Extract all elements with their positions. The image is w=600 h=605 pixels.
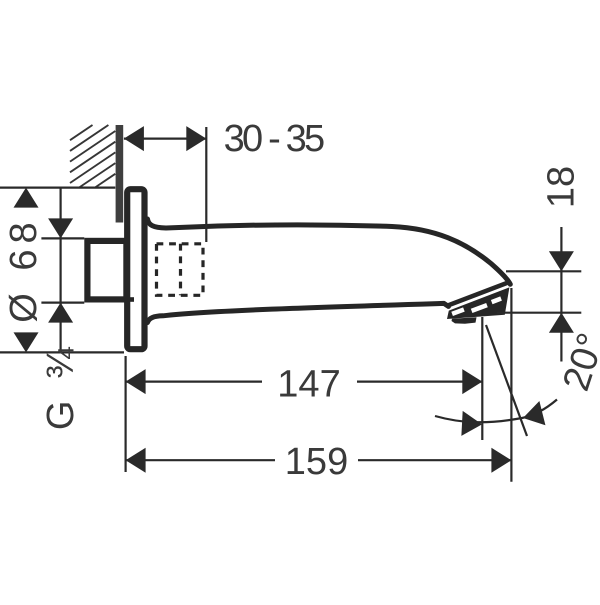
G3/4 nipple bbox=[87, 241, 126, 300]
svg-text:147: 147 bbox=[277, 364, 340, 406]
spout top outline bbox=[148, 219, 511, 284]
svg-text:159: 159 bbox=[285, 441, 348, 483]
aerator foot bbox=[452, 317, 477, 324]
dimension 159 right extension line bbox=[510, 288, 512, 482]
dimension 147 right extension line bbox=[481, 317, 483, 440]
angle 20 deg reference slant line bbox=[486, 325, 527, 436]
angle 20 deg arc bbox=[435, 400, 557, 423]
dimension G3/4 bottom tick line bbox=[41, 302, 84, 304]
aerator slot right bbox=[491, 296, 502, 304]
spout body fill bbox=[148, 219, 511, 322]
dimension O68 bottom extension line bbox=[0, 351, 124, 353]
wall hatching bbox=[70, 125, 115, 188]
dimension 18 bottom extension line bbox=[497, 312, 581, 314]
aerator collar bbox=[446, 281, 509, 309]
aerator slot middle bbox=[471, 303, 488, 313]
dimension O68 top extension line bbox=[0, 187, 115, 189]
dimension 18 bottom arrowhead bbox=[549, 313, 574, 333]
dimension 18 line bbox=[560, 227, 562, 313]
dimension 147 arrow line bbox=[126, 381, 262, 383]
dimension G3/4 top arrowhead bbox=[48, 218, 73, 238]
wall surface line bbox=[116, 125, 124, 223]
dimension 30-35 extension line bbox=[205, 127, 207, 242]
angle 20 deg left arrowhead bbox=[461, 411, 482, 437]
dimension 147 left arrowhead bbox=[126, 369, 146, 394]
dimension 30-35 arrow line bbox=[124, 138, 206, 140]
dimension G3/4 line bbox=[59, 188, 61, 352]
spout bottom outline bbox=[148, 303, 449, 322]
dimension 30-35 right arrowhead bbox=[186, 126, 206, 151]
svg-text:18: 18 bbox=[541, 166, 583, 208]
angle 20 deg right arrowhead bbox=[520, 401, 545, 430]
dimension O68 bottom arrowhead bbox=[14, 332, 39, 352]
aerator slot left bbox=[451, 307, 464, 316]
nipple hidden edge nub bbox=[129, 297, 134, 302]
svg-text:30 - 35: 30 - 35 bbox=[224, 118, 324, 160]
dimension 18 top arrowhead bbox=[549, 251, 574, 271]
dimension 159 right arrowhead bbox=[491, 448, 511, 473]
svg-text:G ¾: G ¾ bbox=[40, 342, 82, 430]
dimension 159 left arrowhead bbox=[126, 448, 146, 473]
dimension O68 top arrowhead bbox=[14, 188, 39, 208]
dimension 147 right arrowhead bbox=[462, 369, 482, 394]
flange (escutcheon) bbox=[127, 189, 144, 349]
dimension 147 left extension line bbox=[124, 356, 126, 472]
svg-text:Ø 68: Ø 68 bbox=[3, 216, 45, 322]
hidden connector dashed outline bbox=[157, 244, 204, 295]
aerator body block bbox=[447, 287, 509, 319]
dimension 159 arrow line bbox=[126, 459, 275, 461]
dimension 18 top extension line bbox=[506, 270, 581, 272]
dimension G3/4 bottom arrowhead bbox=[48, 303, 73, 323]
dimension G3/4 top tick line bbox=[41, 237, 84, 239]
dimension 30-35 left arrowhead bbox=[124, 126, 144, 151]
